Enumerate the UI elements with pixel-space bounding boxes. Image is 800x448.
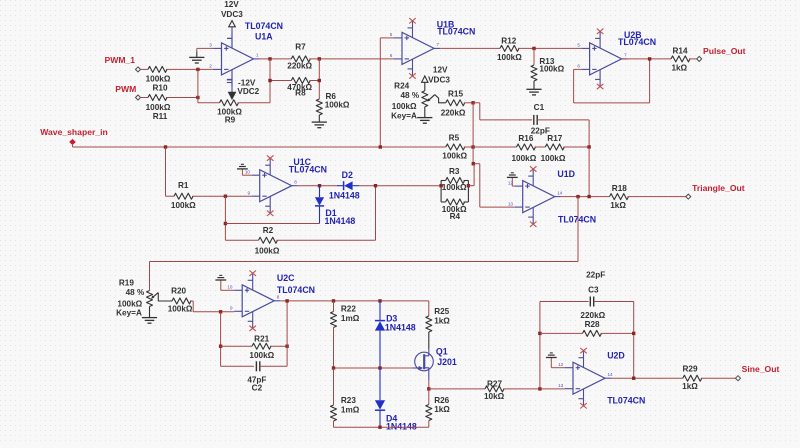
resistor R22 [331,304,360,327]
svg-text:1kΩ: 1kΩ [682,382,698,391]
svg-text:1kΩ: 1kΩ [434,317,450,326]
svg-text:1N4148: 1N4148 [329,190,360,200]
wire PWM_1 to R10 [140,68,148,70]
svg-text:PWM_1: PWM_1 [105,55,136,65]
power +12V VDC3 (above U1A) [221,0,243,48]
svg-text:TL074CN: TL074CN [277,285,315,295]
resistor R11 [146,95,171,121]
svg-text:R1: R1 [178,181,189,190]
ground (R13) [526,89,541,95]
svg-text:TL074CN: TL074CN [289,164,327,174]
op-amp U1D [508,166,563,227]
svg-text:Q1: Q1 [436,347,448,357]
wire inverting node vertical [473,103,515,207]
resistor R25 [426,307,451,332]
svg-text:13: 13 [508,201,514,206]
resistor R3 / R4 parallel block [441,167,468,221]
wire R7 to R7/R8 node then U1B - [309,58,394,60]
svg-text:R15: R15 [448,90,463,99]
node U2C out/fb [285,299,288,302]
svg-text:Wave_shaper_in: Wave_shaper_in [40,127,108,137]
node bottom/D4 [378,426,381,429]
terminal Wave_shaper_in [40,127,108,145]
node R3R4 left [439,184,442,187]
terminal Sine_Out [736,364,780,381]
wire C2 left [221,365,254,367]
wire R10 to U1A inverting node [166,68,214,70]
svg-text:8: 8 [294,179,297,184]
wire C2 right [260,301,287,366]
wire U2B out [622,58,671,60]
svg-text:VDC2: VDC2 [237,87,259,96]
svg-text:R14: R14 [672,46,687,55]
svg-text:R4: R4 [450,212,461,221]
resistor R29 [682,365,702,392]
label U2C [277,273,315,295]
transistor Q1 J201 [412,347,456,380]
wire R28 right lead [601,332,634,334]
svg-text:PWM: PWM [115,84,136,94]
node U1A inv junction [196,68,199,71]
svg-text:220kΩ: 220kΩ [441,108,466,117]
node A (R15/C1) [471,101,474,104]
node R7/R8 right [318,57,321,60]
wire C1 right [537,120,589,147]
wire C1 left [473,103,532,120]
diode D2 1N4148 [329,170,360,201]
node B (R5/R16) [471,145,474,148]
svg-text:12: 12 [508,180,514,185]
svg-text:12: 12 [558,362,564,367]
wire PWM to R11 [140,97,148,99]
power -12V VDC2 (below U1A) [227,70,260,99]
node C jog [472,162,475,165]
label U1C [289,157,327,174]
svg-text:14: 14 [557,190,563,195]
ground (R24) [417,118,432,124]
resistor R6 [316,92,350,115]
wire U2D fb left vertical [539,302,541,389]
wire R15 to node A [464,102,473,104]
node U1C inv [224,195,227,198]
wire R1 to U1C - [192,195,252,197]
wire R9col to R8 [270,59,291,81]
svg-text:100kΩ: 100kΩ [392,102,417,111]
terminal PWM [115,84,140,100]
wire R24 to ground [424,107,426,118]
svg-text:1N4148: 1N4148 [386,421,417,431]
wire R3R4 to inv node [468,164,474,186]
svg-text:13: 13 [558,383,564,388]
node U1D out/down [576,195,579,198]
resistor R15 [441,90,466,118]
wire U1D out [561,196,610,198]
svg-text:14: 14 [608,372,614,377]
svg-text:R24: R24 [394,81,409,90]
wire D1 return [225,223,319,225]
wire R28 left lead [540,332,583,334]
svg-text:R5: R5 [449,134,460,143]
wire R25 to Q1 drain [428,332,430,349]
svg-text:TL074CN: TL074CN [558,215,596,225]
svg-text:8: 8 [277,295,280,300]
svg-text:R20: R20 [171,286,186,295]
node rail/R22 [332,299,335,302]
resistor R27 [484,379,505,401]
resistor R1 [171,181,196,210]
svg-text:48 %: 48 % [126,288,145,297]
svg-text:R2: R2 [263,226,274,235]
node gate/R22 [332,366,335,369]
wire R19 to ground [149,307,151,318]
svg-text:R28: R28 [585,320,600,329]
label U1D [557,169,596,225]
svg-text:-12V: -12V [238,78,256,87]
wire U1B out to R12 [440,47,500,49]
svg-text:TL074CN: TL074CN [245,21,283,31]
wire R18 to Triangle_Out [628,196,687,198]
wire R13 to ground [533,81,535,89]
label U2D [607,350,645,405]
svg-text:R26: R26 [434,396,449,405]
svg-text:10kΩ: 10kΩ [484,392,505,401]
terminal Pulse_Out [697,46,746,61]
label U1A [245,21,283,41]
terminal PWM_1 [105,55,141,72]
wire R6 to ground [318,115,320,122]
svg-text:C3: C3 [588,285,599,294]
ground (R19) [142,318,157,324]
ground (U2C + input) [215,275,234,290]
svg-text:R6: R6 [326,92,337,101]
svg-text:R22: R22 [341,304,356,313]
svg-text:100kΩ: 100kΩ [442,183,467,192]
node gate/D3D4 [378,366,381,369]
node R21 right [285,345,288,348]
wire R21 right lead [270,345,287,347]
node R21 left [219,345,222,348]
svg-text:7: 7 [624,53,627,58]
resistor R8 [287,78,312,98]
wire D2 to R3R4 [359,185,441,187]
svg-text:R23: R23 [341,396,356,405]
svg-text:10: 10 [227,285,233,290]
svg-text:Sine_Out: Sine_Out [742,364,780,374]
svg-text:TL074CN: TL074CN [618,37,656,47]
resistor R12 [497,37,522,62]
svg-text:100kΩ: 100kΩ [497,53,522,62]
svg-text:U2D: U2D [607,350,625,360]
ground (R6) [312,122,327,128]
svg-text:Key=A: Key=A [391,112,417,121]
resistor R18 [610,184,629,210]
wire R11 to node [166,97,198,99]
svg-text:R7: R7 [295,42,306,51]
svg-text:U1D: U1D [557,169,575,179]
wire bottom rail [334,426,429,428]
node C1/R17 [587,145,590,148]
svg-text:10: 10 [245,169,251,174]
svg-text:9: 9 [230,306,233,311]
svg-text:220kΩ: 220kΩ [287,61,312,70]
svg-text:R17: R17 [547,134,562,143]
resistor R28 [580,311,605,336]
svg-text:3: 3 [209,43,212,48]
svg-text:VDC3: VDC3 [428,76,450,85]
svg-text:100kΩ: 100kΩ [539,65,564,74]
svg-text:100kΩ: 100kΩ [171,201,196,210]
op-amp U1A [209,32,259,86]
svg-text:R27: R27 [487,379,502,388]
svg-text:R12: R12 [501,37,516,46]
svg-text:R21: R21 [254,334,269,343]
svg-text:1kΩ: 1kΩ [610,201,626,210]
label U2B [618,30,656,47]
node out/R9 [268,57,271,60]
svg-text:C2: C2 [252,384,263,393]
capacitor C1 [531,103,550,135]
resistor R7 [287,42,312,70]
wire R17 right [563,146,589,148]
svg-text:1mΩ: 1mΩ [341,314,360,323]
svg-text:100kΩ: 100kΩ [512,154,537,163]
op-amp U2C [227,271,280,332]
svg-text:100kΩ: 100kΩ [442,152,467,161]
wire R21 left lead [221,345,252,347]
node U2C inv [219,310,222,313]
terminal Triangle_Out [686,183,745,199]
svg-text:1kΩ: 1kΩ [671,63,687,72]
wire U1D out down to sine shaper [150,197,579,291]
svg-text:100kΩ: 100kΩ [541,154,566,163]
node U2B out [648,57,651,60]
svg-text:R10: R10 [152,83,167,92]
wire U1C out [298,185,337,187]
svg-text:R16: R16 [518,134,533,143]
wire U2B feedback loop [574,59,650,103]
svg-text:C1: C1 [534,103,545,112]
wire inv node down to R9 [198,69,220,102]
ground (U2D + input) [546,353,565,368]
node R28 left [538,332,541,335]
ground (U1C + input) [237,164,252,175]
wire R22 leads [333,301,335,368]
wire R2 leads [225,186,375,241]
ground (U1A + input) [189,48,213,63]
capacitor C3 [586,270,605,306]
svg-text:100kΩ: 100kΩ [146,74,171,83]
wire U1B + input down to rail [380,38,394,147]
node R8 left [268,79,271,82]
svg-text:1: 1 [256,53,259,58]
op-amp U2B [577,29,627,90]
svg-text:Key=A: Key=A [116,309,142,318]
svg-text:1N4148: 1N4148 [385,323,416,333]
svg-text:TL074CN: TL074CN [607,396,645,406]
wire R12 to U2B + [518,47,582,49]
svg-text:100kΩ: 100kΩ [255,247,280,256]
wire U1C feedback down [224,196,226,240]
svg-text:R8: R8 [295,88,306,97]
node U1D out/C1 [587,195,590,198]
wire rail down to R1 [166,147,175,196]
resistor R10 [146,66,171,92]
svg-text:R19: R19 [119,278,134,287]
svg-text:9: 9 [247,190,250,195]
wire C3 left [540,301,589,303]
diode D4 1N4148 [375,368,417,431]
svg-text:220kΩ: 220kΩ [580,311,605,320]
svg-text:48 %: 48 % [400,91,419,100]
wire U2C fb left vertical [220,312,222,367]
wire U1A output [260,58,292,60]
svg-text:R29: R29 [682,365,697,374]
wire R20 to U2C - [190,301,234,312]
node U1C fb mid [224,222,227,225]
svg-text:R18: R18 [612,184,627,193]
wire C1/R17 down to U1D out [588,147,590,197]
capacitor C2 [247,361,266,392]
wire R13 top lead [533,48,535,65]
wire B to R16 [473,146,516,148]
svg-text:100kΩ: 100kΩ [249,351,274,360]
resistor R5 [442,134,467,161]
diode D3 1N4148 [375,301,416,368]
svg-text:6: 6 [577,64,580,69]
resistor R23 [331,396,360,421]
wire R5 to node B [464,146,473,148]
svg-text:100kΩ: 100kΩ [146,103,171,112]
resistor R17 [541,134,566,163]
op-amp U2D [558,348,613,409]
svg-text:TL074CN: TL074CN [437,26,475,36]
svg-text:R25: R25 [434,307,449,316]
svg-text:D2: D2 [342,170,353,180]
wire gate rail [334,367,413,369]
resistor R26 [426,396,451,421]
op-amp U1C [245,155,298,216]
ground (U1D + input) [507,173,518,186]
node rail/D3 [378,299,381,302]
wire R14 to Pulse_Out [689,58,697,60]
wire R29 to Sine_Out [701,377,736,379]
wire R23 leads [333,368,335,427]
node rail/R1 [164,145,167,148]
node R3R4 right [467,184,470,187]
svg-text:R3: R3 [449,167,460,176]
svg-text:12V: 12V [224,0,239,9]
svg-text:1kΩ: 1kΩ [434,405,450,414]
node R28 right [632,332,635,335]
svg-text:R11: R11 [153,112,168,121]
wire Q1 source to R26 node [428,380,430,389]
wire U2D out [611,377,683,379]
potentiometer R19 [116,278,172,317]
svg-text:1N4148: 1N4148 [324,216,355,226]
wire R27 left [429,388,485,390]
svg-text:5: 5 [390,32,393,37]
potentiometer R24 [391,81,446,120]
svg-text:22pF: 22pF [586,270,605,279]
svg-text:12V: 12V [433,66,448,75]
wire U2C out rail [280,300,429,302]
wire Wave_shaper rail [73,145,446,147]
power +12V VDC3 (above R24) [422,66,451,91]
wire R27 to U2D - [503,388,565,390]
resistor R21 [249,334,274,360]
node U2D inv [538,387,541,390]
svg-text:J201: J201 [437,357,457,367]
resistor R16 [512,134,537,163]
resistor R13 [531,57,565,81]
node source/R27 [427,387,430,390]
node U2D out/C3 [632,377,635,380]
svg-text:100kΩ: 100kΩ [168,304,193,313]
svg-text:Pulse_Out: Pulse_Out [703,46,746,56]
svg-text:U2C: U2C [277,273,295,283]
resistor R20 [168,286,193,313]
diode D1 1N4148 [315,186,356,226]
label U1B [437,19,476,36]
node R8 right [318,79,321,82]
wire R9 to output node [238,59,271,103]
svg-text:100kΩ: 100kΩ [117,300,142,309]
resistor R9 [217,100,242,125]
resistor R14 [671,46,690,72]
resistor R2 [255,226,280,256]
op-amp U1B [390,18,440,79]
svg-text:Triangle_Out: Triangle_Out [692,183,745,193]
svg-text:100kΩ: 100kΩ [325,101,350,110]
node R11/R9 junction [196,96,199,99]
svg-text:R9: R9 [225,116,236,125]
wire R16-R17 [535,146,546,148]
svg-text:5: 5 [577,43,580,48]
wire R26 leads [428,389,430,427]
svg-text:2: 2 [209,64,212,69]
node R12/R13 [532,47,535,50]
wire C3 right [594,302,634,379]
svg-text:6: 6 [390,53,393,58]
wire R8 right [309,59,319,99]
svg-text:1mΩ: 1mΩ [341,406,360,415]
svg-text:U1A: U1A [255,31,273,41]
wire R25 column [428,301,430,316]
svg-text:7: 7 [437,42,440,47]
node rail/U1B+ [379,145,382,148]
node D1 top [318,184,321,187]
svg-text:VDC3: VDC3 [221,10,243,19]
node D2/R2 junction [374,184,377,187]
